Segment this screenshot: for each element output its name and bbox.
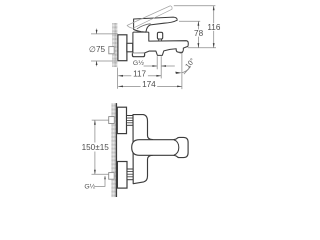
150±15 dimension line — [94, 120, 96, 142]
upper flange — [117, 107, 126, 133]
flange ⌀75 (side view) — [118, 35, 127, 61]
spout tip extension line — [181, 54, 183, 89]
wall nipple between flange and body — [127, 43, 133, 52]
faucet body (plan view) — [133, 115, 153, 184]
lever inner curve — [137, 24, 151, 29]
dimension 78 vertical line — [197, 21, 199, 29]
svg-text:117: 117 — [133, 69, 146, 78]
diverter knob on spout — [157, 32, 162, 39]
wall hatch (plan view) — [112, 103, 116, 197]
lever capsule end arc (plan view) — [174, 140, 179, 155]
dimension 117 — [118, 75, 131, 77]
lever handle (solid, lowered position) — [134, 17, 178, 32]
body + spout outline (side view) — [133, 32, 188, 55]
angle 10 degree slant line — [184, 67, 191, 75]
dimension 174 — [118, 85, 140, 87]
extension line from solid lever tip — [179, 20, 200, 22]
upper nipple threads — [127, 116, 134, 126]
lower flange — [117, 162, 127, 189]
wall hatch (side view) — [112, 23, 117, 67]
svg-text:174: 174 — [142, 80, 156, 89]
upper pipe stub square — [109, 117, 115, 124]
svg-text:G½: G½ — [133, 59, 144, 67]
lower nipple threads — [127, 169, 134, 180]
aerator extension lines — [156, 56, 158, 69]
shower outlet nipple G1/2 (below body) — [132, 53, 144, 56]
supply pipe stub square (side view) — [109, 47, 114, 54]
svg-text:116: 116 — [207, 23, 220, 32]
dimension 116 vertical line — [213, 6, 215, 24]
extension baseline from spout tip — [188, 47, 216, 49]
extension line from raised lever tip — [174, 5, 216, 7]
wall face line (plan view) — [115, 103, 117, 197]
lever with end knob (plan view, combined outline) — [132, 137, 188, 157]
dimension ⌀75 arrows — [96, 29, 98, 34]
lower pipe stub square — [109, 173, 115, 180]
dimension ⌀75 extension lines — [91, 33, 118, 35]
svg-text:78: 78 — [194, 29, 204, 38]
150±15 extension lines — [92, 119, 109, 121]
G1/2 leader line — [95, 176, 105, 186]
svg-text:∅75: ∅75 — [89, 45, 106, 54]
svg-text:10°: 10° — [184, 57, 197, 70]
svg-text:150±15: 150±15 — [82, 143, 110, 152]
aerator small dimension — [144, 65, 158, 67]
wall extension line (lower) — [117, 68, 119, 89]
angle 10 degree arc with arrow — [182, 69, 189, 73]
svg-text:G½: G½ — [84, 182, 95, 190]
lever handle raised position (thin outline) — [127, 6, 172, 29]
spout lip shading — [178, 51, 183, 54]
